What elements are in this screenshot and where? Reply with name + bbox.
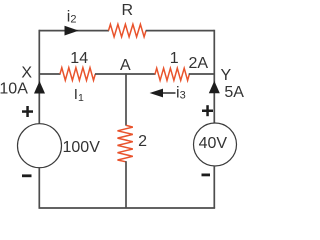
wire top right segment (146, 30, 215, 32)
plus sign right source (202, 105, 213, 116)
svg-text:10A: 10A (0, 81, 28, 98)
wire right vertical upper (213, 30, 215, 123)
wire middle horizontal resistor 1 to node Y (189, 73, 215, 75)
svg-text:2: 2 (138, 133, 147, 150)
svg-text:Y: Y (221, 67, 232, 84)
wire middle horizontal resistor 14 to resistor 1 (through node A) (95, 73, 156, 75)
voltage source 100V circle (18, 124, 62, 168)
voltage source 40V circle (194, 123, 237, 166)
current arrow i2 (65, 26, 79, 36)
current arrow i3 (150, 89, 163, 98)
wire resistor 2 down to bottom (125, 161, 127, 208)
resistor R (109, 24, 147, 37)
svg-text:5A: 5A (224, 84, 244, 101)
wire right vertical lower (213, 166, 215, 208)
svg-text:14: 14 (70, 50, 88, 67)
wire left vertical upper (38, 30, 40, 124)
svg-text:R: R (122, 2, 134, 19)
wire middle horizontal X to resistor 14 (39, 73, 60, 75)
svg-text:1: 1 (170, 50, 179, 67)
plus sign left source (22, 106, 33, 117)
resistor 2 (118, 125, 133, 162)
svg-text:40V: 40V (199, 135, 228, 152)
minus sign left source (22, 174, 32, 177)
wire node A down to resistor 2 (125, 73, 127, 125)
wire left vertical lower (38, 167, 40, 208)
resistor 1 (155, 68, 189, 80)
minus sign right source (202, 174, 211, 177)
svg-text:i2: i2 (67, 8, 77, 25)
svg-text:X: X (21, 64, 32, 81)
current arrow 5A (209, 81, 220, 93)
svg-text:I1: I1 (74, 86, 84, 104)
svg-text:A: A (120, 57, 131, 74)
svg-text:100V: 100V (63, 139, 101, 156)
wire top left segment (39, 30, 109, 32)
wire bottom (39, 207, 216, 209)
svg-text:2A: 2A (189, 55, 209, 72)
resistor 14 (60, 68, 95, 81)
svg-text:i3: i3 (176, 85, 186, 102)
current arrow 10A (34, 81, 45, 94)
